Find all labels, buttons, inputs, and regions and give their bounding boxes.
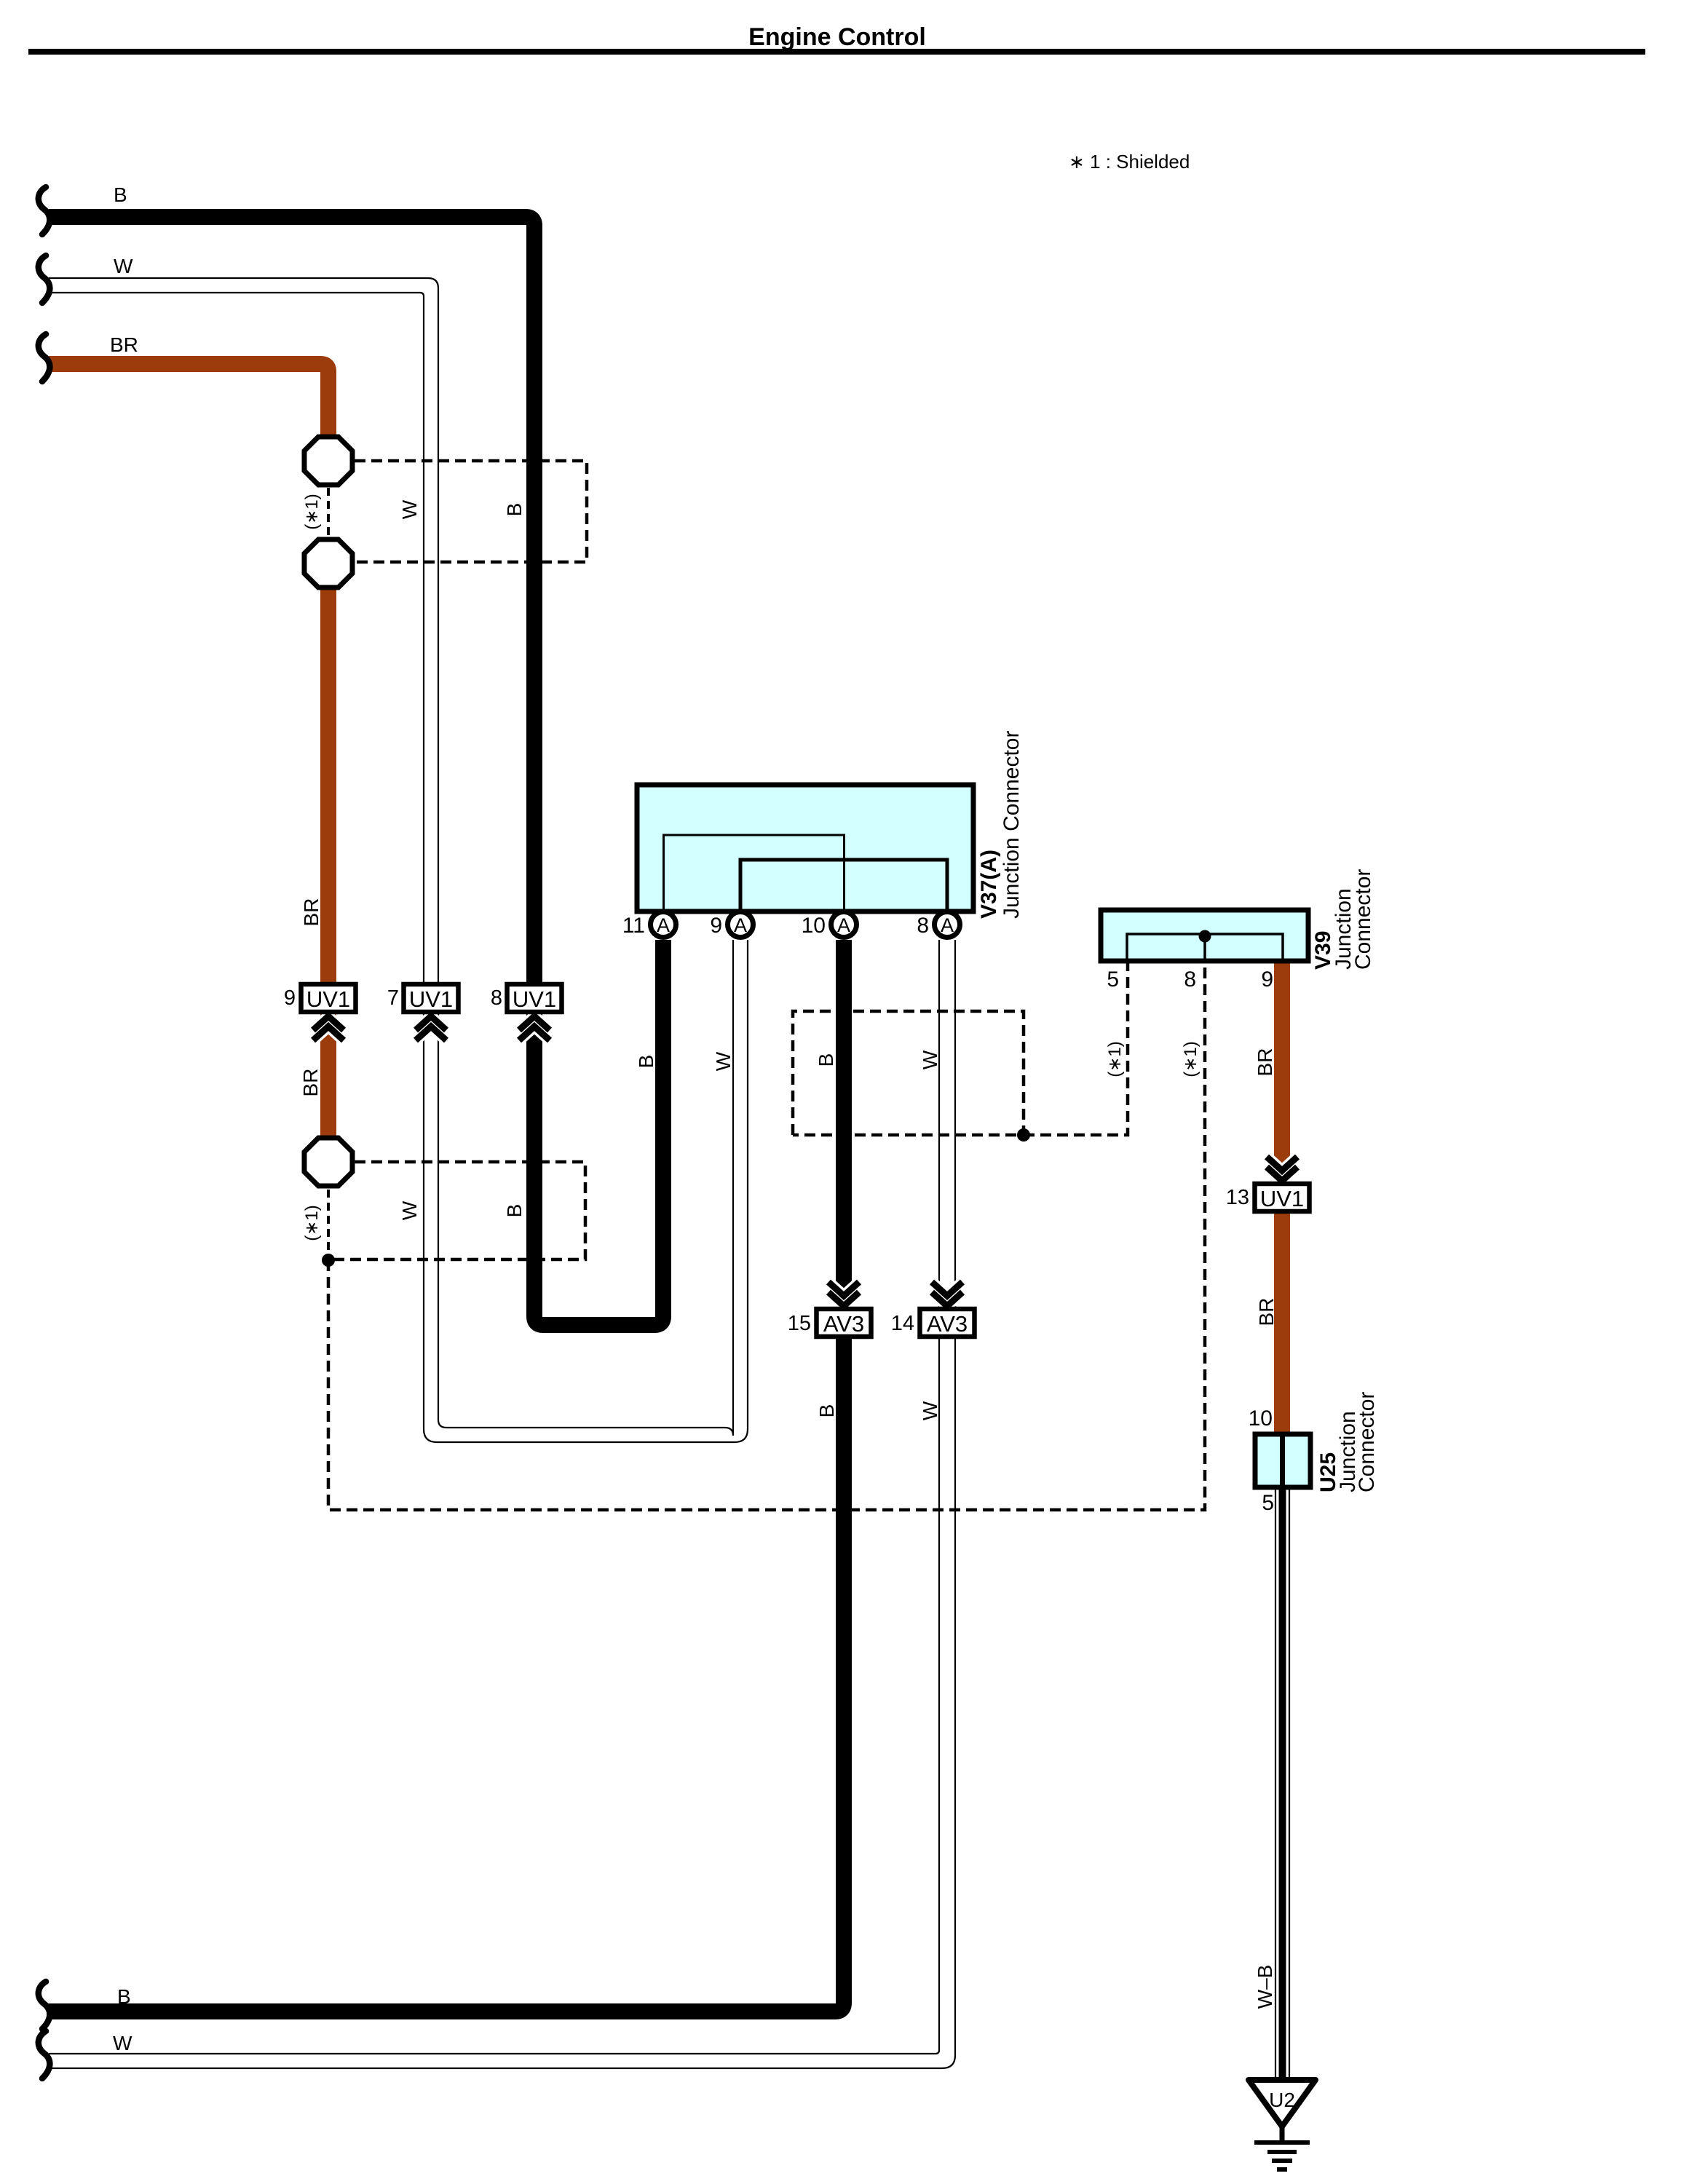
svg-text:B: B <box>815 1053 837 1067</box>
V39 internal junction dot <box>1199 930 1211 943</box>
svg-text:8: 8 <box>1184 968 1196 992</box>
svg-text:BR: BR <box>299 1069 322 1097</box>
ground triangle U2 <box>1249 2080 1316 2126</box>
V39 internal bus stub to pin 8 <box>1203 936 1206 959</box>
V39 internal bus pin 5 to pin 9 <box>1127 934 1283 959</box>
svg-text:(∗1): (∗1) <box>302 494 322 529</box>
svg-text:B: B <box>114 183 127 206</box>
V37(A) JUNCTION CONNECTOR <box>622 731 1024 938</box>
break squiggle B top entry <box>39 187 50 234</box>
shield dashed run from octagon 3 junction to V39 pin 8 <box>328 961 1205 1510</box>
svg-text:V37(A): V37(A) <box>977 850 1001 919</box>
shield dashed box around W and B wires at octagons 1-2 <box>355 461 587 562</box>
shield dashed link (*1) below octagon 3 <box>327 1190 330 1259</box>
ground stem <box>1280 2124 1285 2143</box>
break squiggle B bottom exit <box>39 1982 50 2029</box>
wire W-B black stripe <box>1279 1487 1286 2080</box>
svg-text:(∗1): (∗1) <box>1105 1041 1125 1077</box>
svg-text:9: 9 <box>1261 968 1273 992</box>
svg-text:BR: BR <box>110 333 138 356</box>
svg-text:15: 15 <box>788 1312 811 1335</box>
shield octagon 2 <box>304 539 352 587</box>
junction dot on shield box below V37(A) <box>1017 1128 1030 1142</box>
svg-text:B: B <box>815 1404 838 1418</box>
wire BR from shield octagon 2 through UV1-9 to shield octagon 3 <box>320 587 336 1137</box>
svg-text:W: W <box>712 1051 735 1071</box>
U25 JUNCTION CONNECTOR <box>1249 1392 1379 1515</box>
ground bar 1 <box>1254 2140 1310 2145</box>
wire W from left entry to V37(A) pin 9 (outlined white wire, edge 1) <box>49 278 733 1436</box>
V37(A) internal bus pin 11 to pin 10 <box>664 835 844 909</box>
wire BR from left entry to shield octagon 1 <box>49 364 328 437</box>
svg-text:W: W <box>919 1050 941 1069</box>
break squiggle W bottom exit <box>39 2031 50 2078</box>
svg-text:B: B <box>503 503 526 517</box>
connector AV3 pin 14 box <box>920 1309 975 1337</box>
connector arrow up (UV1-9) <box>313 1016 344 1040</box>
svg-text:Connector: Connector <box>1355 1392 1379 1492</box>
title rule <box>28 49 1645 55</box>
junction connector V37(A) body <box>637 785 973 911</box>
svg-text:13: 13 <box>1226 1186 1249 1209</box>
svg-text:8: 8 <box>491 986 502 1010</box>
break squiggle BR entry <box>39 334 50 381</box>
svg-text:U2: U2 <box>1269 2089 1295 2111</box>
wire BR from V39 pin 9 through UV1-13 to U25 pin 10 <box>1274 961 1290 1437</box>
shield dashed run from box to V39 pin 5 <box>1024 961 1128 1135</box>
svg-text:B: B <box>635 1055 657 1069</box>
svg-text:11: 11 <box>622 914 645 938</box>
svg-text:Junction Connector: Junction Connector <box>1000 731 1024 919</box>
svg-text:W: W <box>114 255 133 277</box>
svg-text:B: B <box>117 1985 131 2008</box>
svg-text:(∗1): (∗1) <box>302 1205 322 1241</box>
wire W from V37(A) pin 8 through AV3-14 to bottom-left exit (edge 2) <box>49 940 955 2068</box>
svg-text:BR: BR <box>300 898 323 927</box>
shield dashed box around B and W wires below V37(A) <box>793 1011 1024 1135</box>
wire B from V37(A) pin 10 through AV3-15 to bottom-left exit <box>49 940 844 2011</box>
svg-text:B: B <box>503 1204 526 1218</box>
SHIELD OCTAGONS <box>304 437 352 1186</box>
svg-text:Connector: Connector <box>1351 869 1375 970</box>
V37(A) terminal circle A pin 10 <box>831 912 857 938</box>
ground bar 3 <box>1272 2159 1292 2163</box>
GROUND U2 <box>1249 2080 1316 2169</box>
V37(A) terminal circle A pin 9 <box>728 912 753 938</box>
shield dashed box at octagon 3 <box>328 1162 585 1259</box>
WIRE COLOR LABELS <box>110 183 1278 2054</box>
svg-text:W: W <box>919 1401 941 1420</box>
svg-text:A: A <box>941 914 954 936</box>
svg-text:∗ 1 : Shielded: ∗ 1 : Shielded <box>1069 151 1190 173</box>
svg-text:(∗1): (∗1) <box>1181 1041 1201 1077</box>
svg-text:10: 10 <box>1249 1406 1273 1431</box>
wire W from V37(A) pin 8 through AV3-14 to bottom-left exit (edge 1) <box>49 940 939 2054</box>
svg-text:A: A <box>734 914 747 936</box>
V37(A) internal bus pin 9 to pin 8 <box>740 860 947 909</box>
connector UV1 pin 13 box <box>1255 1184 1310 1211</box>
shield dashed link (*1) between octagon 1 and octagon 2 <box>327 488 330 537</box>
svg-text:W: W <box>398 499 421 519</box>
connector UV1 pin 7 box <box>404 984 459 1012</box>
connector arrow down (AV3-15) <box>828 1282 859 1306</box>
connector AV3 pin 15 box <box>817 1309 871 1337</box>
svg-text:AV3: AV3 <box>927 1311 968 1337</box>
connector arrow up (UV1-7) <box>416 1016 446 1040</box>
svg-text:W: W <box>113 2032 132 2054</box>
UV1 CONNECTOR ROW <box>284 984 562 1040</box>
connector arrow up (UV1-8) <box>519 1016 550 1040</box>
AV3 CONNECTOR ROW <box>788 1282 975 1337</box>
V37(A) terminal circle A pin 8 <box>935 912 960 938</box>
wire W-B from U25 pin 5 to ground U2 (outline edges) <box>1275 1487 1289 2080</box>
svg-text:UV1: UV1 <box>1260 1186 1304 1211</box>
wire W from left entry to V37(A) pin 9 (outlined white wire, edge 2) <box>49 293 748 1442</box>
svg-text:BR: BR <box>1254 1048 1276 1077</box>
UV1-13 CONNECTOR <box>1226 1157 1310 1211</box>
svg-text:14: 14 <box>891 1312 914 1335</box>
wire B from left entry to V37(A) pin 11 (U-shape) <box>49 217 663 1325</box>
BREAK SQUIGGLES <box>39 187 50 2078</box>
junction connector V39 body <box>1101 910 1308 961</box>
svg-text:A: A <box>657 914 670 936</box>
svg-text:UV1: UV1 <box>409 986 453 1012</box>
svg-text:8: 8 <box>917 914 929 938</box>
U25 center divider (wire pass-through) <box>1280 1434 1285 1487</box>
svg-text:W–B: W–B <box>1254 1965 1276 2009</box>
DASHED SHIELD LINES <box>328 461 1205 1510</box>
V39 JUNCTION CONNECTOR <box>1101 869 1375 992</box>
shield octagon 3 <box>304 1138 352 1186</box>
svg-text:W: W <box>398 1200 421 1220</box>
svg-text:UV1: UV1 <box>306 986 350 1012</box>
junction connector U25 body <box>1255 1434 1310 1487</box>
shield octagon 1 <box>304 437 352 485</box>
connector UV1 pin 9 box <box>301 984 356 1012</box>
svg-text:A: A <box>837 914 850 936</box>
break squiggle W top entry <box>39 256 50 303</box>
svg-text:9: 9 <box>284 986 296 1010</box>
svg-text:AV3: AV3 <box>823 1311 864 1337</box>
svg-text:7: 7 <box>387 986 399 1010</box>
svg-text:10: 10 <box>802 914 826 938</box>
ground bar 2 <box>1267 2150 1297 2154</box>
ground bar 4 <box>1277 2167 1287 2172</box>
svg-text:5: 5 <box>1107 968 1119 992</box>
svg-text:9: 9 <box>710 914 722 938</box>
svg-text:Engine Control: Engine Control <box>748 23 926 51</box>
connector arrow down (AV3-14) <box>932 1282 962 1306</box>
svg-text:BR: BR <box>1255 1298 1278 1326</box>
connector UV1 pin 8 box <box>507 984 562 1012</box>
svg-text:5: 5 <box>1262 1491 1274 1515</box>
connector arrow down (UV1-13) <box>1267 1157 1297 1181</box>
junction dot on shield at octagon 3 <box>322 1254 335 1267</box>
svg-text:UV1: UV1 <box>513 986 556 1012</box>
V37(A) terminal circle A pin 11 <box>651 912 676 938</box>
